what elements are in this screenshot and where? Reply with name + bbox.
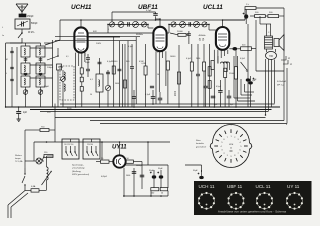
svg-text:50: 50 xyxy=(90,94,92,96)
svg-text:110 125 150: 110 125 150 xyxy=(64,144,73,146)
svg-text:50µF: 50µF xyxy=(149,170,154,172)
svg-text:500pF: 500pF xyxy=(31,23,38,25)
svg-text:1: 1 xyxy=(230,125,231,127)
svg-text:100V: 100V xyxy=(96,43,102,45)
svg-text:2µF: 2µF xyxy=(23,112,28,114)
svg-text:UBF11: UBF11 xyxy=(138,4,158,11)
svg-text:W M L: W M L xyxy=(28,32,35,34)
svg-text:S-Rolle A: S-Rolle A xyxy=(277,80,286,83)
svg-text:0,8A: 0,8A xyxy=(31,185,36,188)
svg-text:5000pF: 5000pF xyxy=(136,165,143,167)
svg-text:0,1µF: 0,1µF xyxy=(145,94,151,96)
svg-text:UCL11: UCL11 xyxy=(203,4,223,11)
svg-text:464kHz: 464kHz xyxy=(136,34,143,36)
svg-text:50µF: 50µF xyxy=(193,170,198,172)
svg-text:(Stellung: (Stellung xyxy=(72,170,81,173)
svg-text:UCH11: UCH11 xyxy=(71,4,92,11)
svg-text:9: 9 xyxy=(230,167,231,169)
svg-text:50pF: 50pF xyxy=(85,62,90,64)
svg-text:5000: 5000 xyxy=(115,83,119,85)
svg-text:4: 4 xyxy=(209,146,210,148)
svg-text:UCH: UCH xyxy=(229,144,234,146)
svg-text:1: 1 xyxy=(108,29,109,31)
svg-text:0,5µF: 0,5µF xyxy=(216,86,222,88)
svg-text:7V 0,3A: 7V 0,3A xyxy=(15,160,23,163)
svg-text:20000: 20000 xyxy=(177,31,183,33)
svg-text:L: L xyxy=(6,73,7,75)
svg-text:2000: 2000 xyxy=(175,90,177,96)
svg-text:A: A xyxy=(289,62,292,66)
svg-text:2000: 2000 xyxy=(196,58,200,60)
svg-text:umschaltung: umschaltung xyxy=(72,167,85,170)
svg-text:Anschlüsse von unten gesehen u: Anschlüsse von unten gesehen und Kurz - … xyxy=(218,209,287,213)
svg-text:UY 11: UY 11 xyxy=(287,184,300,189)
svg-text:Stirn-: Stirn- xyxy=(196,139,201,142)
svg-text:1: 1 xyxy=(157,52,158,54)
svg-text:5: 5 xyxy=(252,146,253,148)
svg-text:10000: 10000 xyxy=(170,56,175,58)
svg-text:UCL 11: UCL 11 xyxy=(256,184,272,189)
svg-text:0,1µF: 0,1µF xyxy=(128,46,134,48)
svg-text:50µF: 50µF xyxy=(158,168,163,170)
svg-text:3: 3 xyxy=(245,131,246,133)
svg-text:0,05µF: 0,05µF xyxy=(101,176,108,178)
svg-text:100pF: 100pF xyxy=(47,67,54,69)
svg-text:0,1µF: 0,1µF xyxy=(186,58,192,60)
svg-text:UCH 11: UCH 11 xyxy=(199,184,215,189)
svg-text:15000: 15000 xyxy=(229,73,235,75)
svg-text:20: 20 xyxy=(161,193,163,195)
svg-text:30000: 30000 xyxy=(112,61,117,63)
svg-text:7: 7 xyxy=(245,161,246,163)
svg-text:100: 100 xyxy=(151,193,154,195)
svg-text:2: 2 xyxy=(216,161,217,163)
svg-text:220 240: 220 240 xyxy=(87,144,93,146)
svg-text:50pF: 50pF xyxy=(44,86,50,88)
svg-text:60V: 60V xyxy=(93,31,97,33)
svg-text:0,1µF: 0,1µF xyxy=(107,61,113,63)
svg-text:150pF: 150pF xyxy=(27,16,34,18)
svg-text:UBF 11: UBF 11 xyxy=(227,184,243,189)
svg-text:MP 1 µ: MP 1 µ xyxy=(277,85,284,87)
svg-text:5000: 5000 xyxy=(126,175,130,177)
svg-text:kontakte: kontakte xyxy=(196,142,205,145)
svg-text:gezeichnet: gezeichnet xyxy=(196,145,206,148)
svg-text:lampe: lampe xyxy=(15,158,22,160)
svg-text:Spannungs-: Spannungs- xyxy=(72,165,84,167)
svg-text:A: A xyxy=(287,56,290,60)
svg-text:0,5M: 0,5M xyxy=(139,61,144,63)
svg-text:1M: 1M xyxy=(157,74,160,76)
svg-text:700: 700 xyxy=(269,55,274,58)
svg-text:464kHz: 464kHz xyxy=(199,35,206,37)
svg-text:0,1: 0,1 xyxy=(66,56,69,58)
svg-text:Lz: Lz xyxy=(2,35,4,37)
svg-text:Skalen-: Skalen- xyxy=(15,155,22,157)
svg-text:0,2µF: 0,2µF xyxy=(240,58,246,60)
svg-text:220V gezeichnet): 220V gezeichnet) xyxy=(71,173,89,176)
svg-text:6: 6 xyxy=(216,131,217,133)
